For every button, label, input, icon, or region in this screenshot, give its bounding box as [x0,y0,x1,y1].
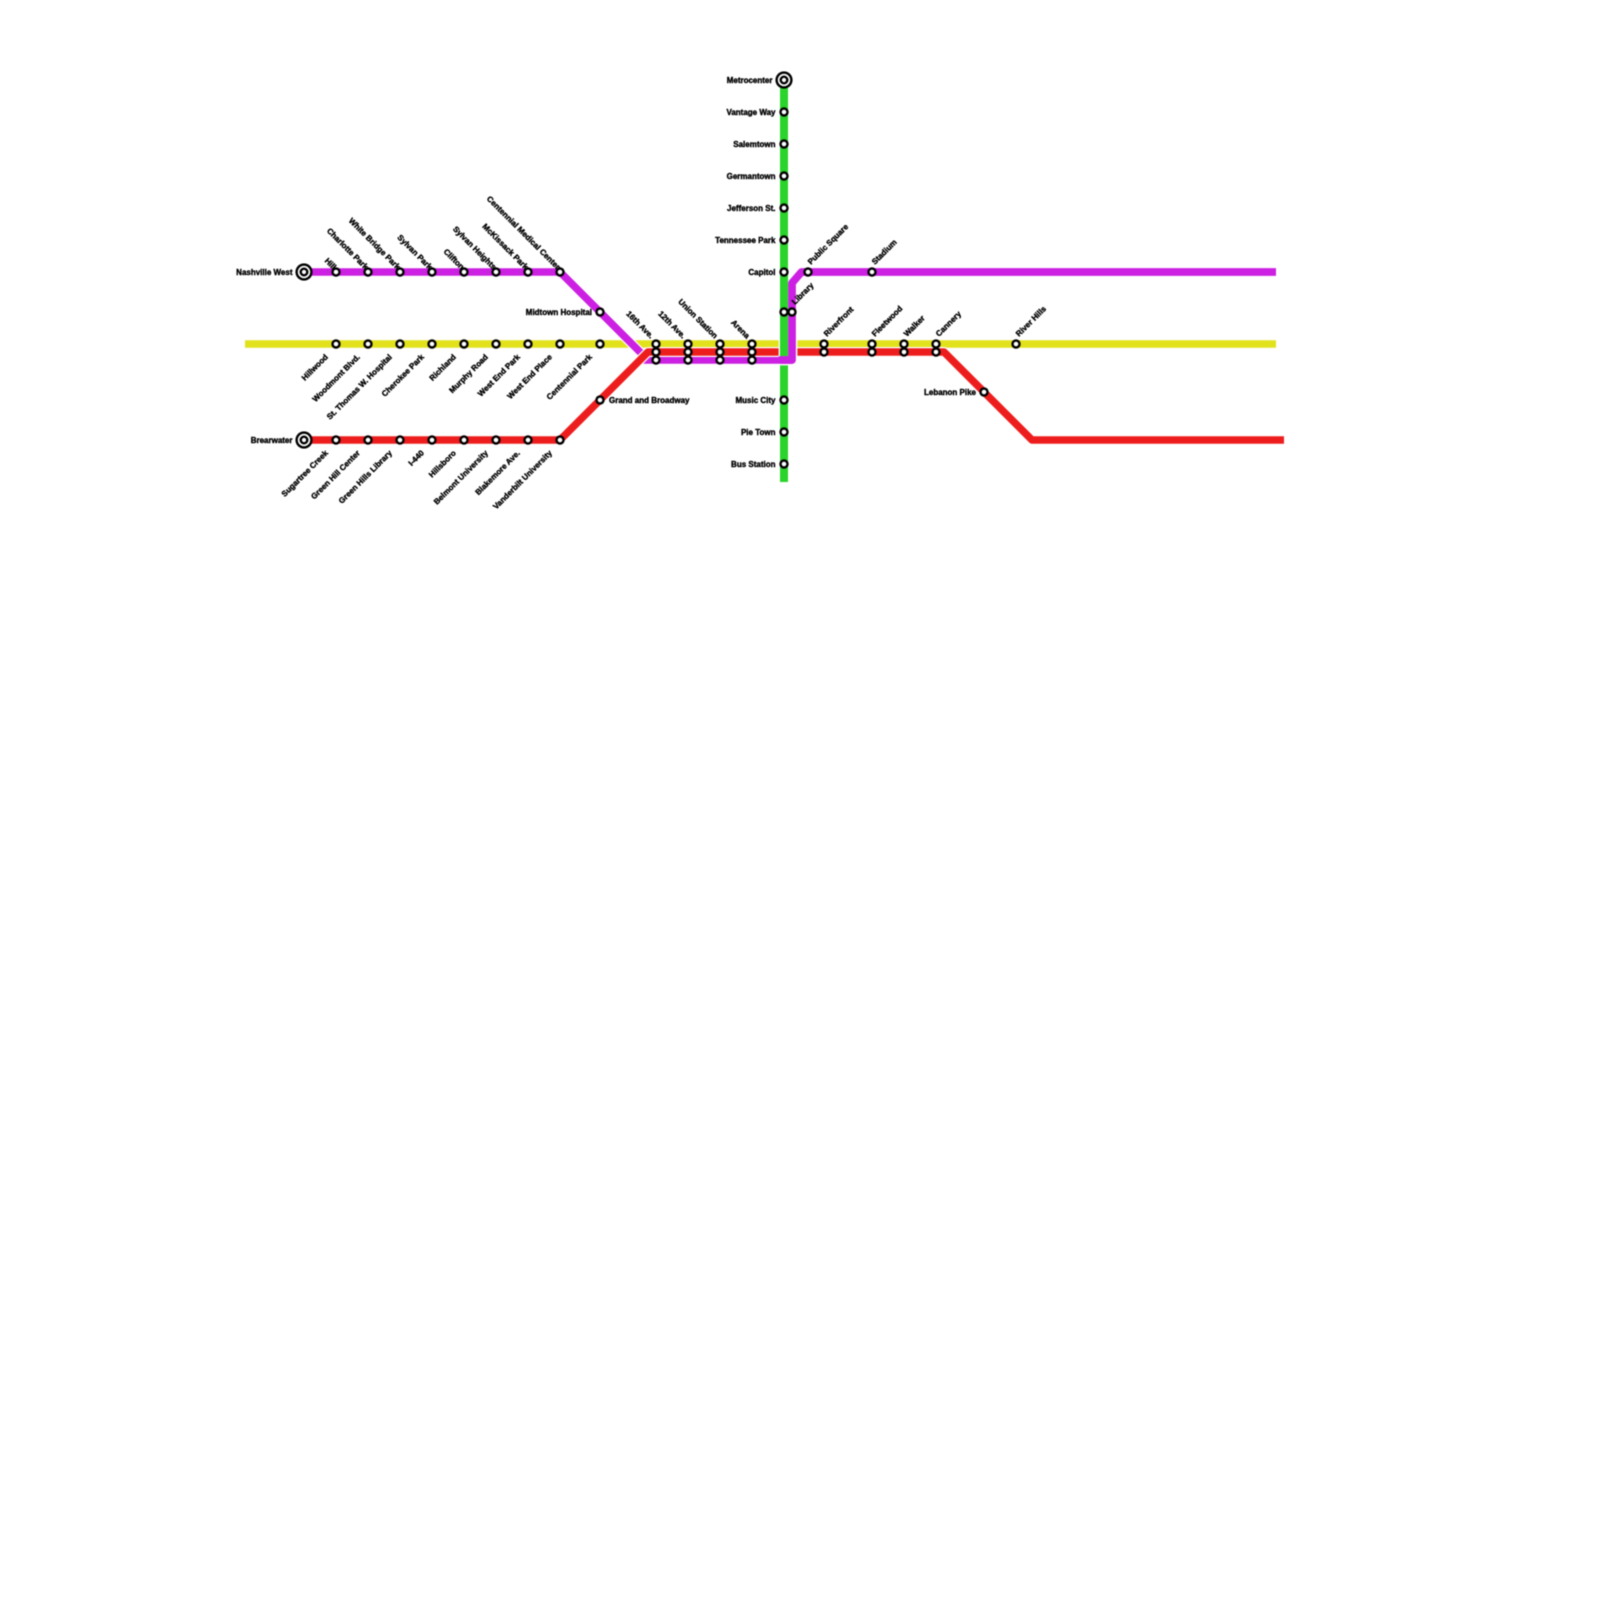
svg-text:12th Ave.: 12th Ave. [656,309,687,340]
red line west + bundle casing [304,352,779,440]
station I-440 circle [429,437,436,444]
svg-text:River Hills: River Hills [1014,304,1048,338]
station Sugartree Creek circle [333,437,340,444]
station Union Station circle [717,357,724,364]
svg-text:Pie Town: Pie Town [741,428,776,437]
svg-text:Belmont University: Belmont University [432,448,490,506]
station 16th Ave. circle [653,341,660,348]
svg-text:Stadium: Stadium [870,238,899,267]
green line lower segment [780,365,788,482]
station Green Hill Center circle [365,437,372,444]
station Music City circle [781,397,788,404]
svg-text:I-440: I-440 [407,448,427,468]
station Hillsboro circle [461,437,468,444]
svg-text:Music City: Music City [735,396,776,405]
magenta line west branch [304,272,648,360]
station Salemtown circle [781,141,788,148]
station Riverfront circle [821,341,828,348]
station Richland circle [461,341,468,348]
station 12th Ave. circle [685,357,692,364]
svg-text:Lebanon Pike: Lebanon Pike [924,388,977,397]
station Riverfront circle [821,349,828,356]
yellow line west segment [245,340,779,348]
station Arena circle [749,349,756,356]
station Cherokee Park circle [429,341,436,348]
svg-text:White Bridge Park: White Bridge Park [347,216,402,271]
magenta line bundle segment [639,356,792,364]
station Walker circle [901,349,908,356]
station Centennial Park circle [597,341,604,348]
station 12th Ave. circle [685,349,692,356]
station Hillwood circle [333,341,340,348]
station Woodmont Blvd. circle [365,341,372,348]
station Lebanon Pike circle [981,389,988,396]
station Clifton circle [461,269,468,276]
red line east segment [797,352,1284,440]
station 16th Ave. circle [653,357,660,364]
magenta line corner + vertical + east [780,272,1276,360]
station Centennial Medical Center circle [557,269,564,276]
station 16th Ave. circle [653,349,660,356]
station White Bridge Park circle [397,269,404,276]
station West End Park circle [525,341,532,348]
svg-text:Riverfront: Riverfront [822,305,856,339]
svg-text:Public Square: Public Square [806,222,850,266]
station Arena circle [749,357,756,364]
svg-text:Cannery: Cannery [934,309,963,338]
yellow line east segment [797,340,1276,348]
station Sylvan Heights circle [493,269,500,276]
station Grand and Broadway circle [597,397,604,404]
station Capitol circle [781,269,788,276]
svg-text:Midtown Hospital: Midtown Hospital [526,308,592,317]
station Pie Town circle [781,429,788,436]
station River Hills circle [1013,341,1020,348]
svg-text:Green Hills Library: Green Hills Library [337,448,394,505]
station Arena circle [749,341,756,348]
svg-text:Sylvan Park: Sylvan Park [396,233,435,272]
station Charlotte Park circle [365,269,372,276]
station Jefferson St. circle [781,205,788,212]
station Stadium circle [869,269,876,276]
station Bus Station circle [781,461,788,468]
svg-text:Salemtown: Salemtown [733,140,775,149]
station Library circle [789,309,796,316]
svg-text:Brearwater: Brearwater [251,436,293,445]
svg-text:Nashville West: Nashville West [236,268,293,277]
station Cannery circle [933,349,940,356]
svg-text:Hillsboro: Hillsboro [427,448,458,479]
svg-text:Walker: Walker [902,314,927,339]
terminus Nashville West [297,265,312,280]
svg-text:Vantage Way: Vantage Way [726,108,776,117]
station Green Hills Library circle [397,437,404,444]
station Blakemore Ave. circle [525,437,532,444]
station Vantage Way circle [781,109,788,116]
red line west + bundle [304,352,779,440]
svg-text:Tennessee Park: Tennessee Park [715,236,776,245]
svg-text:Fleetwood: Fleetwood [870,304,904,338]
svg-text:Arena: Arena [729,318,752,341]
station Fleetwood circle [869,349,876,356]
svg-text:Hillwood: Hillwood [300,352,330,382]
station Union Station circle [717,349,724,356]
station Germantown circle [781,173,788,180]
terminus Metrocenter [777,73,792,88]
station Public Square circle [805,269,812,276]
green line upper segment [780,80,788,356]
station Fleetwood circle [869,341,876,348]
station West End Place circle [557,341,564,348]
station Belmont University circle [493,437,500,444]
terminus Brearwater [297,433,312,448]
svg-text:St. Thomas W. Hospital: St. Thomas W. Hospital [325,353,394,422]
svg-text:Capitol: Capitol [748,268,775,277]
magenta line west branch + diagonal casing [304,272,648,360]
station Murphy Road circle [493,341,500,348]
station Vanderbilt University circle [557,437,564,444]
station Library (green) circle [781,309,788,316]
svg-text:Grand and Broadway: Grand and Broadway [609,396,690,405]
red line east segment casing [797,352,1284,440]
magenta line bundle segment casing [639,355,792,365]
station Walker circle [901,341,908,348]
station St. Thomas W. Hospital circle [397,341,404,348]
svg-text:Bus Station: Bus Station [731,460,776,469]
station Sylvan Park circle [429,269,436,276]
svg-text:Richland: Richland [428,352,458,382]
station Union Station circle [717,341,724,348]
station 12th Ave. circle [685,341,692,348]
svg-text:Jefferson St.: Jefferson St. [727,204,775,213]
station McKissack Park circle [525,269,532,276]
station Hill circle [333,269,340,276]
svg-text:Vanderbilt University: Vanderbilt University [491,448,554,511]
station Cannery circle [933,341,940,348]
station Tennessee Park circle [781,237,788,244]
station Midtown Hospital circle [597,309,604,316]
svg-text:Germantown: Germantown [727,172,776,181]
svg-text:Metrocenter: Metrocenter [727,76,773,85]
